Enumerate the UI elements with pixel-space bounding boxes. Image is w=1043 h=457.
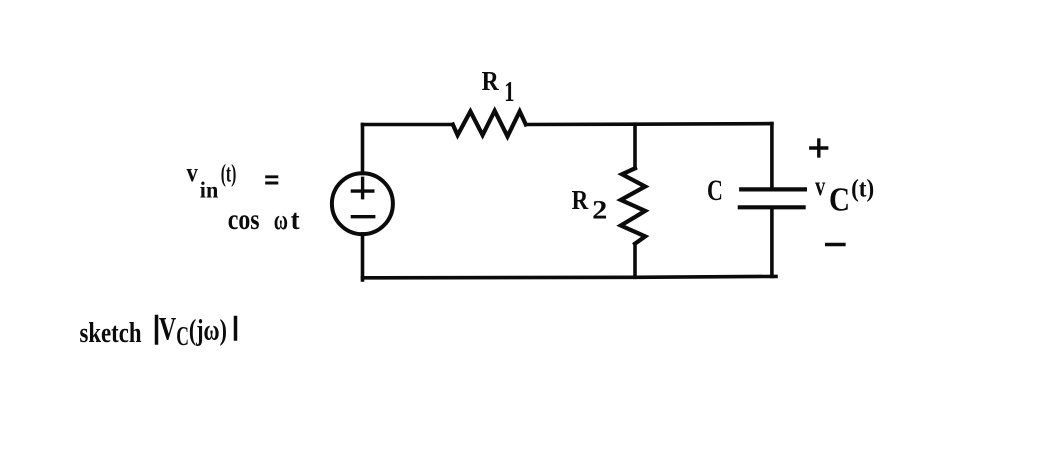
- wire right vertical upper (top rail to capacitor): [770, 124, 774, 190]
- wire bottom rail: [363, 276, 777, 277]
- wire left vertical lower (source - to bottom rail): [361, 234, 365, 280]
- svg-text:(t): (t): [851, 176, 874, 203]
- resistor R2: [621, 168, 645, 243]
- svg-text:cos: cos: [228, 203, 260, 236]
- svg-text:C: C: [829, 182, 850, 219]
- svg-text:(jω): (jω): [189, 314, 227, 347]
- svg-text:1: 1: [504, 76, 514, 108]
- wire right vertical lower (capacitor to bottom rail): [770, 207, 774, 276]
- svg-text:in: in: [200, 177, 219, 202]
- wire R2 branch bottom: [633, 244, 637, 278]
- wire R2 branch top: [633, 124, 637, 168]
- svg-text:(t): (t): [221, 161, 237, 188]
- resistor R1: [453, 111, 526, 137]
- svg-text:C: C: [707, 174, 723, 207]
- wire left vertical upper (top rail to source +): [361, 125, 365, 174]
- voltage source Vin circle: [332, 173, 393, 234]
- capacitor C bottom plate: [740, 205, 804, 209]
- voltage source plus sign: [352, 178, 372, 197]
- svg-text:t: t: [291, 204, 300, 236]
- wire top rail right (R1 to top-right corner): [526, 122, 772, 127]
- svg-text:V: V: [159, 312, 176, 348]
- svg-text:ω: ω: [274, 204, 288, 236]
- caption closing bar of |VC(jw)|: [234, 318, 238, 340]
- svg-text:v: v: [815, 171, 825, 201]
- svg-text:C: C: [176, 321, 189, 351]
- svg-text:v: v: [187, 158, 198, 187]
- caption opening bar of |VC(jw)|: [155, 317, 159, 344]
- voltage source minus sign: [352, 215, 373, 218]
- wire top rail left (source to R1): [363, 123, 453, 127]
- svg-text:sketch: sketch: [80, 317, 142, 349]
- capacitor C top plate: [741, 187, 805, 191]
- svg-text:R: R: [572, 184, 590, 215]
- svg-text:2: 2: [592, 196, 607, 225]
- label - polarity of vC: [827, 243, 844, 247]
- label + polarity of vC: [811, 140, 827, 156]
- label = sign: [265, 177, 278, 183]
- svg-text:R: R: [482, 65, 500, 96]
